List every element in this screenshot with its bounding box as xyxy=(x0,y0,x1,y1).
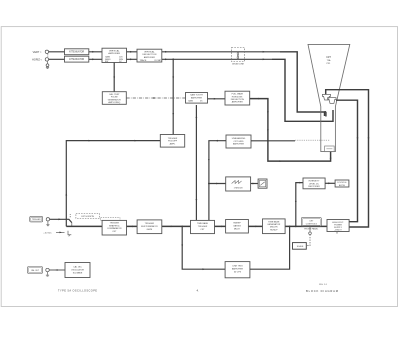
svg-text:UNBLANKING: UNBLANKING xyxy=(232,137,246,140)
svg-text:MULTIVIBRATOR: MULTIVIBRATOR xyxy=(141,225,158,228)
svg-text:SHAPER &: SHAPER & xyxy=(109,224,120,227)
svg-text:TRIGGER: TRIGGER xyxy=(145,223,155,225)
svg-text:OSCILLATOR: OSCILLATOR xyxy=(71,268,84,271)
svg-text:SWEEP: SWEEP xyxy=(233,222,241,224)
svg-text:VERT ≈: VERT ≈ xyxy=(33,51,42,54)
svg-text:FULL WAVE: FULL WAVE xyxy=(232,93,244,96)
svg-text:AMPLIFIER: AMPLIFIER xyxy=(232,101,243,104)
svg-text:AMPL: AMPL xyxy=(170,142,177,145)
svg-text:SAW TOOTH: SAW TOOTH xyxy=(190,94,203,97)
svg-text:RUNUP: RUNUP xyxy=(270,229,278,231)
svg-text:BLOCK DIAGRAM: BLOCK DIAGRAM xyxy=(306,289,339,293)
svg-text:AMPLIFIER: AMPLIFIER xyxy=(144,56,155,59)
svg-text:+15 VDC: +15 VDC xyxy=(43,232,52,234)
svg-text:60 CPS: 60 CPS xyxy=(234,272,242,274)
svg-text:AMPL FREQ: AMPL FREQ xyxy=(108,101,120,104)
svg-text:BW: BW xyxy=(105,61,108,63)
svg-text:DEFLECTION: DEFLECTION xyxy=(231,99,245,101)
svg-text:TYPE 5A OSCILLOSCOPE: TYPE 5A OSCILLOSCOPE xyxy=(58,290,97,293)
svg-text:PICKOFF: PICKOFF xyxy=(168,141,178,143)
svg-text:ASTIG: ASTIG xyxy=(339,184,345,187)
svg-text:LINE TRIG: LINE TRIG xyxy=(232,266,243,268)
svg-text:GENERATOR: GENERATOR xyxy=(108,98,121,101)
svg-text:ATTENUATOR: ATTENUATOR xyxy=(69,58,85,61)
svg-text:MULTI: MULTI xyxy=(234,228,241,230)
svg-text:TRIGGER: TRIGGER xyxy=(198,226,208,228)
svg-text:FIG. 1-1: FIG. 1-1 xyxy=(319,284,327,286)
svg-text:CKT: CKT xyxy=(200,229,205,231)
svg-text:INTENSITY: INTENSITY xyxy=(309,181,320,183)
svg-text:TRIGGER: TRIGGER xyxy=(168,138,178,140)
svg-text:1 MS/CM: 1 MS/CM xyxy=(234,188,243,190)
svg-text:LEVEL DC: LEVEL DC xyxy=(309,183,319,185)
svg-text:RESTORER: RESTORER xyxy=(308,186,320,188)
svg-text:EXT HORIZ IN: EXT HORIZ IN xyxy=(81,216,94,218)
svg-text:MILLER: MILLER xyxy=(270,227,278,229)
svg-text:HORIZONT.: HORIZONT. xyxy=(232,96,244,98)
svg-text:VERTICAL: VERTICAL xyxy=(144,50,155,53)
svg-text:GATING: GATING xyxy=(233,224,241,227)
svg-text:SCALE: SCALE xyxy=(297,245,304,248)
svg-text:ROTAT: ROTAT xyxy=(155,59,162,62)
svg-text:AMPLIFIER: AMPLIFIER xyxy=(108,52,120,55)
svg-text:CAL OUT: CAL OUT xyxy=(31,269,40,272)
svg-text:CKT: CKT xyxy=(112,231,117,233)
svg-text:CAL. TEST: CAL. TEST xyxy=(109,93,120,96)
svg-text:TRIGGER: TRIGGER xyxy=(32,219,41,221)
svg-text:CONTROLS: CONTROLS xyxy=(306,223,318,225)
svg-text:GATE: GATE xyxy=(147,228,153,231)
svg-text:CRT GRID: CRT GRID xyxy=(234,141,244,143)
svg-text:HORIZ ≈: HORIZ ≈ xyxy=(32,59,42,62)
svg-text:ATTENUATOR: ATTENUATOR xyxy=(69,51,85,54)
svg-text:COMPARATOR: COMPARATOR xyxy=(107,227,122,230)
svg-text:AMPLIFIER: AMPLIFIER xyxy=(232,268,243,271)
svg-text:TRIGGER: TRIGGER xyxy=(110,223,120,225)
svg-text:PULSE: PULSE xyxy=(111,97,118,99)
svg-text:TIME BASE: TIME BASE xyxy=(268,220,280,223)
svg-text:TRACE: TRACE xyxy=(140,59,147,62)
svg-text:FOCUS &: FOCUS & xyxy=(338,182,348,184)
svg-text:AMPLIFIER: AMPLIFIER xyxy=(191,96,202,99)
svg-text:GAIN: GAIN xyxy=(188,100,193,103)
svg-text:AMPLIFIER: AMPLIFIER xyxy=(233,143,244,146)
svg-text:4.: 4. xyxy=(197,289,200,293)
svg-text:CAL 1KC: CAL 1KC xyxy=(73,265,82,268)
svg-text:-1850 V: -1850 V xyxy=(334,230,342,232)
svg-text:VERTICAL: VERTICAL xyxy=(109,50,120,53)
svg-text:DELAY LINE: DELAY LINE xyxy=(232,62,244,65)
svg-text:GENERATOR: GENERATOR xyxy=(267,223,280,226)
svg-text:TIME BASE: TIME BASE xyxy=(197,222,209,225)
svg-text:T5A: T5A xyxy=(327,59,331,62)
svg-text:CRT: CRT xyxy=(326,56,331,59)
svg-text:FRONT PANEL: FRONT PANEL xyxy=(304,227,319,230)
svg-text:SQ WAVE: SQ WAVE xyxy=(73,271,83,274)
